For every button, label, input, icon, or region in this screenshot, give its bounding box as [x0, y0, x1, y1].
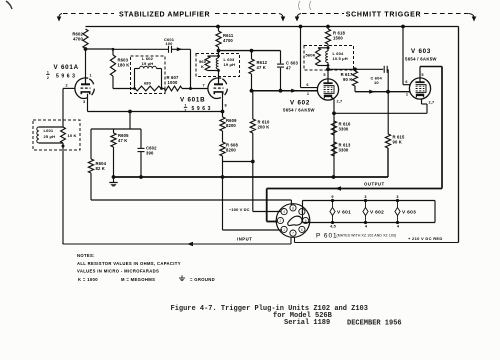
- wire -100V row to plug top pin: [91, 199, 291, 201]
- svg-text:3300: 3300: [339, 127, 349, 132]
- svg-text:INPUT: INPUT: [237, 237, 252, 242]
- wire C601 down to V601B grid: [190, 49, 192, 88]
- svg-text:8: 8: [292, 206, 294, 210]
- svg-text:2: 2: [184, 109, 186, 113]
- L601 shielded box: [33, 120, 80, 150]
- wire plate to tube: [85, 49, 87, 78]
- wire plate row to R617: [328, 68, 355, 70]
- svg-text:5: 5: [421, 73, 423, 77]
- V602 cathode down: [332, 98, 334, 100]
- svg-text:200 K: 200 K: [258, 125, 270, 130]
- svg-text:10.5 μH: 10.5 μH: [333, 56, 348, 61]
- svg-text:3: 3: [83, 100, 85, 104]
- grid row into V602: [250, 89, 254, 93]
- svg-text:K: K: [201, 64, 204, 69]
- svg-text:82 K: 82 K: [96, 166, 105, 171]
- svg-text:ALL RESISTOR VALUES IN OHM: ALL RESISTOR VALUES IN OHMS, CAPACITY: [77, 261, 181, 266]
- tube V602 (pentode): [317, 79, 338, 100]
- svg-text:2,7: 2,7: [337, 100, 343, 104]
- L603 shielded box: [196, 54, 240, 77]
- svg-text:−100 V DC: −100 V DC: [229, 207, 250, 212]
- svg-text:8200: 8200: [226, 123, 236, 128]
- ground row: [112, 175, 116, 179]
- wire V601A cathode down: [87, 99, 89, 112]
- svg-text:4700: 4700: [223, 38, 233, 43]
- L604 shielded box: [304, 46, 354, 71]
- svg-text:K = 1000: K = 1000: [78, 277, 98, 282]
- svg-text:3: 3: [364, 195, 366, 199]
- svg-text:STABILIZED AMPLIFIER: STABILIZED AMPLIFIER: [119, 12, 210, 19]
- svg-text:1: 1: [406, 93, 408, 97]
- resistor R615: [385, 134, 390, 148]
- svg-text:V 603: V 603: [411, 48, 431, 55]
- resistor R617: [354, 69, 356, 71]
- svg-text:Serial 1189: Serial 1189: [284, 319, 330, 327]
- svg-text:1: 1: [184, 103, 186, 107]
- svg-text:560K: 560K: [306, 53, 316, 58]
- V601B cathode chain R609/R608: [222, 98, 224, 117]
- svg-text:5 9 6 3: 5 9 6 3: [192, 106, 212, 112]
- svg-text:2: 2: [280, 219, 282, 223]
- svg-text:90 K: 90 K: [343, 77, 352, 82]
- resistor R605: [113, 129, 115, 133]
- svg-text:SCHMITT TRIGGER: SCHMITT TRIGGER: [346, 12, 421, 19]
- svg-text:5: 5: [323, 73, 325, 77]
- svg-text:8: 8: [225, 104, 227, 108]
- svg-text:680: 680: [144, 81, 152, 86]
- schmitt trigger bracket: [297, 14, 301, 18]
- svg-text:1500: 1500: [333, 36, 343, 41]
- resistor R603: [112, 49, 114, 55]
- output line: [267, 188, 442, 190]
- svg-text:180 K: 180 K: [118, 63, 130, 68]
- connector P601: [276, 204, 310, 238]
- svg-text:47 K: 47 K: [118, 138, 127, 143]
- resistor R610: [252, 91, 254, 119]
- resistor 10K: [61, 127, 66, 143]
- svg-text:1: 1: [307, 92, 309, 96]
- input line: [62, 243, 64, 244]
- svg-text:L601: L601: [44, 128, 54, 133]
- svg-text:+ 210 V DC RED: + 210 V DC RED: [408, 236, 443, 241]
- heater contact V 601: [331, 199, 334, 202]
- resistor 680: [133, 87, 136, 90]
- svg-text:V 602: V 602: [370, 210, 384, 216]
- heater contact V 602: [364, 199, 367, 202]
- svg-text:25 μH: 25 μH: [44, 134, 56, 139]
- svg-text:= GROUND: = GROUND: [190, 277, 215, 282]
- coupling row to R612/C603: [219, 50, 281, 52]
- heater supply box: [303, 200, 436, 202]
- svg-text:Figure 4-7. Trigger Plug-in U: Figure 4-7. Trigger Plug-in Units Z102 a…: [171, 305, 368, 313]
- capacitor C604: [355, 68, 383, 70]
- svg-text:19 μH: 19 μH: [142, 61, 154, 66]
- svg-text:2,7: 2,7: [429, 101, 435, 105]
- L602 shielded box: [131, 56, 166, 94]
- wire: +210V top rail: [86, 26, 459, 28]
- svg-text:4: 4: [283, 210, 285, 214]
- resistor R613: [331, 142, 336, 156]
- inductor L602: [134, 69, 136, 89]
- stabilized amplifier bracket: [59, 14, 62, 18]
- svg-text:6: 6: [405, 80, 407, 84]
- bias row R604/R605/C602: [91, 128, 141, 130]
- wire: right edge down: [458, 27, 460, 243]
- V602 plate node: [327, 66, 329, 80]
- node: V601A plate: [84, 47, 88, 51]
- wire -100VDC to plug pin 2: [253, 211, 281, 213]
- svg-text:3: 3: [396, 195, 398, 199]
- bottom supply edge: [295, 242, 459, 244]
- resistor R616: [331, 121, 336, 135]
- svg-text:10 K: 10 K: [68, 133, 77, 138]
- wire R608 junction to R610: [223, 161, 253, 163]
- svg-text:2: 2: [47, 76, 49, 80]
- svg-text:4,5: 4,5: [330, 225, 336, 229]
- wire ground row up to R615: [387, 148, 389, 177]
- svg-text:90 K: 90 K: [393, 140, 402, 145]
- wire ground drop to plug: [222, 177, 224, 230]
- inductor L604: [327, 48, 329, 51]
- svg-text:V 601A: V 601A: [54, 64, 79, 71]
- svg-text:9: 9: [331, 195, 333, 199]
- screen row V602-V603: [334, 112, 427, 114]
- V603 plate to output bus: [419, 67, 421, 78]
- svg-text:(MATES WITH XZ 102 AND XZ: (MATES WITH XZ 102 AND XZ 103): [337, 234, 397, 238]
- capacitor C602: [140, 129, 142, 148]
- ground symbol: [109, 179, 117, 187]
- wire rail to V603 pin6: [402, 27, 404, 85]
- svg-text:OUTPUT: OUTPUT: [364, 182, 385, 187]
- svg-text:5654 / 6AK5W: 5654 / 6AK5W: [283, 108, 315, 113]
- wire output to plug pin1: [266, 189, 268, 222]
- svg-text:V 601: V 601: [337, 210, 351, 216]
- resistor 560K: [208, 55, 219, 57]
- inductor L603: [218, 56, 220, 58]
- svg-text:6: 6: [306, 83, 308, 87]
- svg-text:1000: 1000: [168, 80, 178, 85]
- svg-text:P 601: P 601: [316, 233, 338, 240]
- svg-text:2: 2: [66, 84, 68, 88]
- P601 key: [288, 216, 302, 225]
- resistor R611: [218, 27, 220, 32]
- resistor R607: [162, 88, 165, 90]
- svg-text:1: 1: [90, 74, 92, 78]
- V601B grid row : L602 + 680 + R607: [113, 88, 135, 90]
- svg-text:100: 100: [165, 41, 173, 46]
- svg-text:7: 7: [203, 84, 205, 88]
- svg-text:390: 390: [146, 151, 154, 156]
- svg-text:4700: 4700: [73, 37, 83, 42]
- resistor 560K (L604 box): [318, 47, 328, 49]
- wire V601A grid to L601: [63, 87, 75, 89]
- capacitor C603: [280, 51, 282, 64]
- tube V603 (pentode): [409, 78, 430, 99]
- svg-text:VALUES IN MICRO - MICROFARADS: VALUES IN MICRO - MICROFARADS: [77, 269, 159, 274]
- svg-text:5 9 6 3: 5 9 6 3: [56, 73, 76, 79]
- svg-text:6: 6: [301, 228, 303, 232]
- capacitor C601: [150, 48, 168, 50]
- svg-text:DECEMBER 1956: DECEMBER 1956: [347, 320, 402, 328]
- svg-text:1: 1: [283, 228, 285, 232]
- tube V601A: [75, 78, 88, 98]
- svg-text:47: 47: [286, 66, 291, 71]
- heater contact V 603: [396, 199, 399, 202]
- wire rail to V602 pin6: [300, 27, 302, 88]
- wire cathode row: [88, 111, 223, 113]
- svg-text:5654 / 6AK5W: 5654 / 6AK5W: [405, 57, 437, 62]
- svg-text:8200: 8200: [226, 148, 236, 153]
- resistor R618: [327, 27, 329, 30]
- svg-text:M = MEGOHMS: M = MEGOHMS: [121, 277, 155, 282]
- svg-text:NOTES:: NOTES:: [77, 253, 95, 258]
- wire: plate row to R603/C601: [86, 48, 114, 50]
- resistor R604: [90, 129, 92, 159]
- wire L601 to input line: [62, 143, 64, 244]
- svg-text:47 K: 47 K: [257, 65, 266, 70]
- svg-text:V 602: V 602: [290, 100, 310, 107]
- svg-text:19 μH: 19 μH: [224, 62, 236, 67]
- grid row into V603: [355, 91, 410, 93]
- inductor L601: [39, 126, 63, 128]
- svg-text:1: 1: [47, 71, 49, 75]
- resistor R602: [83, 29, 88, 49]
- resistor R612: [251, 51, 253, 59]
- svg-text:7: 7: [292, 232, 294, 236]
- stray marks top-middle: [299, 1, 301, 10]
- tube V601B: [208, 78, 221, 98]
- stray mark top-left: [6, 1, 12, 9]
- svg-text:10: 10: [374, 80, 379, 85]
- svg-text:3300: 3300: [339, 148, 349, 153]
- svg-text:V 603: V 603: [402, 210, 416, 216]
